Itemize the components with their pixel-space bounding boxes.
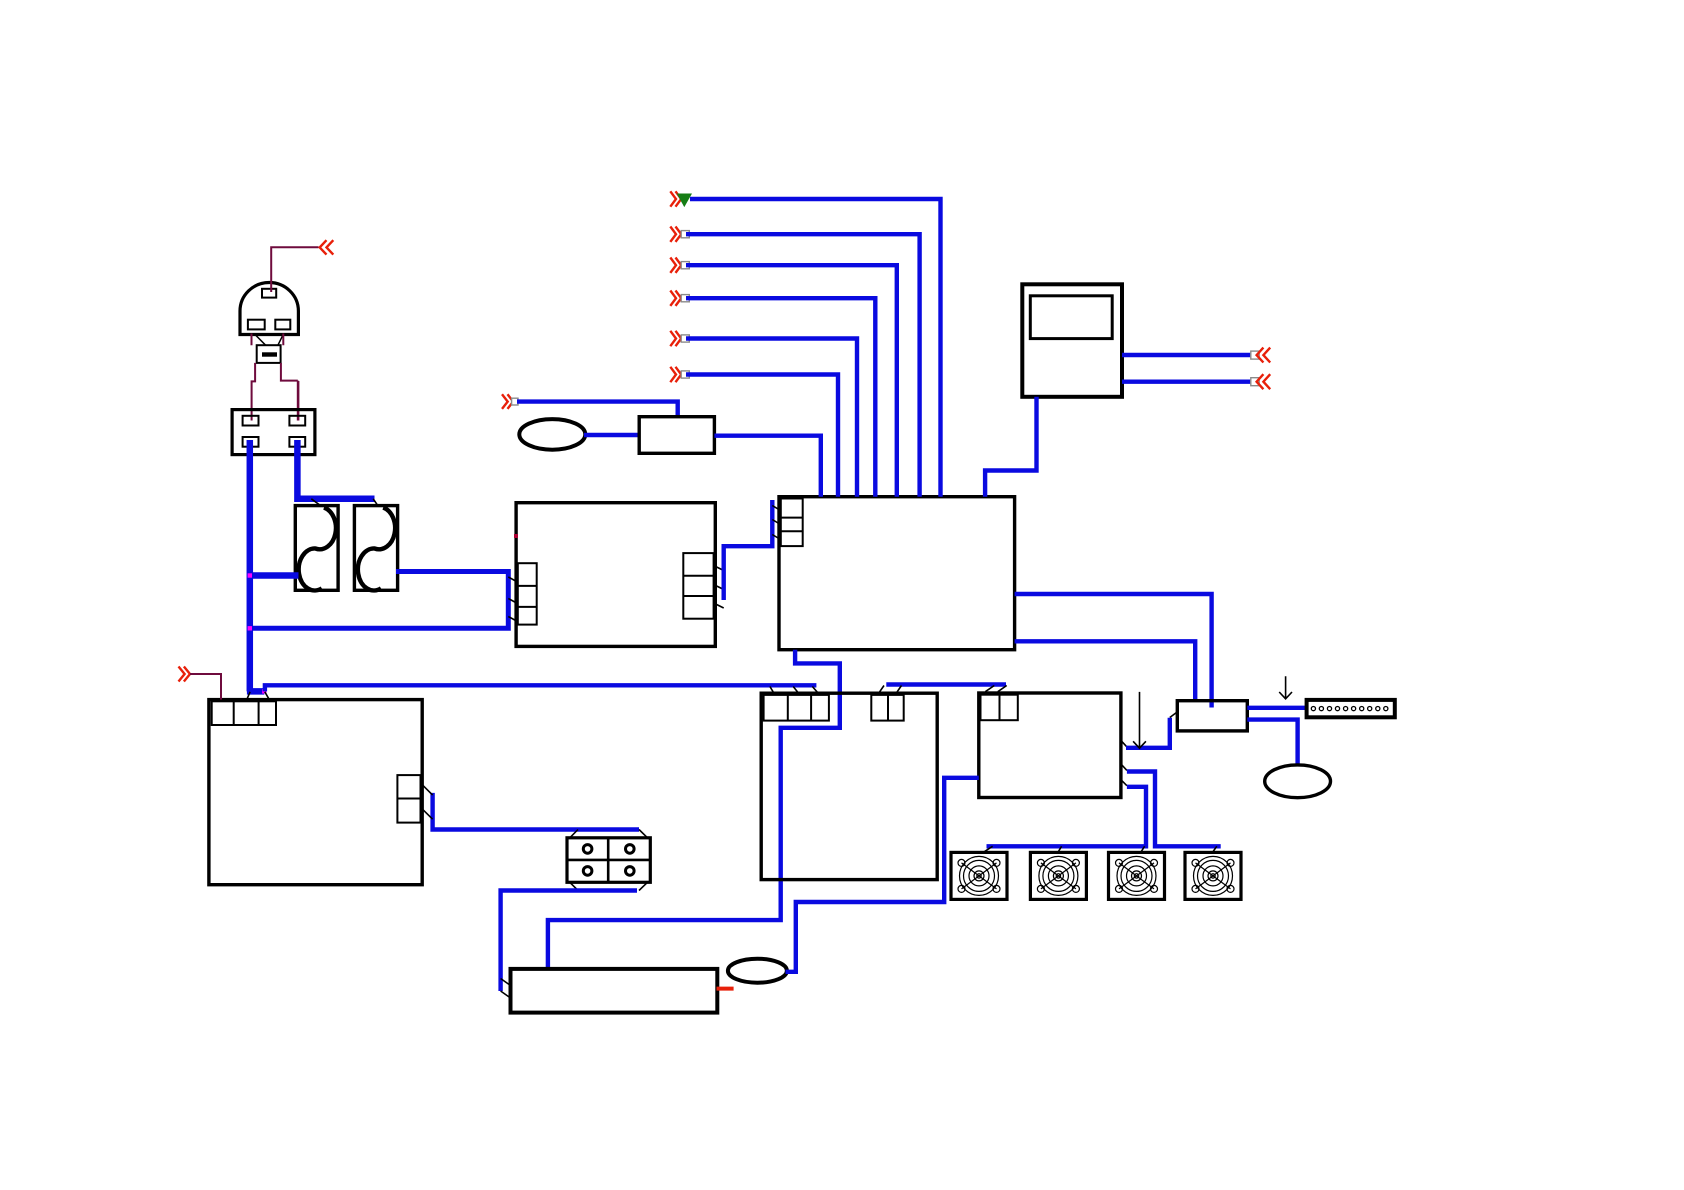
monitor xyxy=(1022,284,1122,397)
wire arrow to case xyxy=(190,674,221,700)
wire row1 xyxy=(690,199,941,497)
wire row3 xyxy=(686,265,897,497)
tick xyxy=(772,506,780,540)
hub box xyxy=(1177,701,1247,731)
input arrow oval row xyxy=(502,394,518,409)
AC plug xyxy=(240,283,298,363)
tick xyxy=(1170,712,1178,718)
wire neutral down xyxy=(247,440,254,691)
wire row2 xyxy=(686,234,920,497)
tick xyxy=(878,686,902,695)
input arrow row2 xyxy=(670,227,689,242)
junction xyxy=(262,689,266,693)
pin header xyxy=(1307,700,1395,717)
input arrow row3 xyxy=(670,258,689,273)
wire mobo to big box xyxy=(724,500,773,600)
wire big box out1 to hub xyxy=(1015,594,1212,708)
wire hub to speaker xyxy=(1247,720,1297,765)
junction dot xyxy=(514,534,518,538)
wire 2x2 to power strip xyxy=(501,891,637,992)
wire row5 xyxy=(686,339,857,497)
junction xyxy=(248,626,252,630)
fuse F1 xyxy=(295,506,338,591)
case center tower xyxy=(761,693,937,879)
wire monitor out1 xyxy=(1122,353,1250,357)
speaker oval bottom xyxy=(728,959,787,983)
wire PSU to hub xyxy=(1126,718,1170,748)
input arrow row6 xyxy=(670,367,689,382)
wire oval to PSU xyxy=(786,778,979,972)
wire live to fuses xyxy=(297,440,374,499)
motherboard box xyxy=(516,503,715,647)
tick xyxy=(770,687,820,695)
wire hub to pin header xyxy=(1247,706,1306,710)
tick fans xyxy=(982,846,1145,853)
wire PSU to right fan bus xyxy=(1127,772,1221,847)
sensor oval xyxy=(519,419,585,450)
fan 4 xyxy=(1185,852,1241,899)
tick xyxy=(570,830,648,838)
input arrow row5 xyxy=(670,331,689,346)
fan 3 xyxy=(1109,852,1165,899)
wire PSU to left fan bus xyxy=(987,787,1147,847)
power connector 2x2 xyxy=(567,838,650,883)
wire fuse output loop xyxy=(250,572,509,629)
fuse F2 xyxy=(354,506,397,591)
wire long distribution xyxy=(265,685,817,691)
input arrow row1 xyxy=(670,191,681,206)
fan 2 xyxy=(1030,852,1086,899)
tick xyxy=(422,785,432,820)
junction xyxy=(248,573,252,577)
tick fan4 xyxy=(1212,846,1217,853)
wire monitor power xyxy=(985,397,1036,497)
output arrow1 xyxy=(1251,348,1270,363)
wire mains stub xyxy=(247,688,264,695)
wire neutral link to fuse F1 xyxy=(250,572,299,579)
tick xyxy=(508,577,517,622)
wire monitor out2 xyxy=(1122,380,1250,384)
wire oval to controller xyxy=(584,433,639,437)
power strip xyxy=(511,969,718,1013)
wire oval row xyxy=(517,402,678,417)
tick xyxy=(985,686,1006,692)
mains input arrow xyxy=(320,240,334,254)
wire row6 xyxy=(686,375,838,497)
fan 1 xyxy=(951,852,1007,899)
terminal block J1 xyxy=(232,410,315,455)
wire row4 xyxy=(686,298,875,497)
down arrow near header xyxy=(1279,676,1292,699)
green terminator xyxy=(677,194,692,208)
wire plug right pin to terminal xyxy=(281,334,298,421)
tick xyxy=(501,979,511,999)
wire earth to mains-in arrow xyxy=(271,247,318,292)
output arrow2 xyxy=(1251,374,1270,389)
wire plug left pin to terminal xyxy=(252,334,256,421)
controller box xyxy=(639,417,714,454)
power indicator red xyxy=(717,987,734,991)
tick xyxy=(570,882,648,890)
wire big box bottom to power strip xyxy=(548,650,840,969)
wire controller to big box xyxy=(714,436,820,497)
wire case to PSU distribution xyxy=(886,682,1006,686)
PSU box xyxy=(979,693,1121,798)
case bottom-left xyxy=(209,700,422,885)
big box (system unit) xyxy=(779,497,1015,650)
tick xyxy=(714,566,724,609)
speaker oval right xyxy=(1265,765,1331,798)
tick xyxy=(247,692,269,700)
tick xyxy=(1121,740,1127,785)
wire big box out2 to hub xyxy=(1015,641,1196,700)
input arrow row4 xyxy=(670,291,689,306)
wire case right to 2x2 connector xyxy=(433,793,639,830)
tick xyxy=(311,499,378,506)
input arrow case xyxy=(179,667,191,682)
down arrow near PSU xyxy=(1133,692,1146,748)
